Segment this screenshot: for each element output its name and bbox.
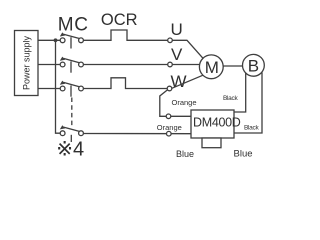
svg-text:MC: MC: [58, 15, 89, 36]
brake coil B: [243, 54, 265, 76]
terminal W: [167, 86, 172, 91]
wire U to motor: [172, 40, 203, 58]
wire motor to brake: [223, 65, 242, 67]
wire phase3 from supply: [38, 88, 60, 90]
terminal U: [168, 38, 173, 43]
power supply box: [15, 31, 39, 96]
wire W tap down to DM400D: [160, 90, 191, 117]
svg-text:B: B: [248, 56, 259, 75]
svg-text:Black: Black: [223, 95, 238, 102]
wire with OCR heater phase3: [83, 78, 167, 89]
contactor MC pole 2: [60, 57, 84, 73]
DM400D brake unit box: [191, 110, 234, 138]
wire V to motor: [172, 64, 199, 66]
wire W to motor: [172, 75, 203, 88]
svg-text:DM400D: DM400D: [193, 116, 241, 130]
svg-text:M: M: [205, 58, 219, 77]
svg-text:Blue: Blue: [234, 149, 253, 160]
connector on orange wire 1: [166, 114, 171, 119]
wire pole4 to DM400D: [83, 133, 191, 135]
svg-text:U: U: [171, 20, 183, 39]
wire phase2 to terminal: [83, 64, 167, 66]
motor M: [199, 55, 223, 79]
terminal V: [168, 62, 173, 67]
svg-text:Orange: Orange: [157, 123, 182, 132]
contactor MC pole 1: [60, 32, 84, 48]
wire phase2 from supply: [38, 64, 60, 66]
wire brake lead left: [234, 73, 246, 112]
vertical tap bus wire: [56, 40, 61, 133]
svg-text:V: V: [171, 45, 183, 64]
svg-text:OCR: OCR: [101, 11, 138, 29]
svg-text:Black: Black: [244, 125, 259, 132]
connector block under DM400D: [202, 138, 221, 148]
svg-text:※4: ※4: [56, 139, 84, 161]
svg-text:Blue: Blue: [176, 149, 194, 159]
wire with OCR heater phase1: [83, 30, 167, 40]
wire phase1 from supply: [38, 39, 60, 41]
svg-text:Power supply: Power supply: [22, 35, 32, 90]
contactor MC pole 3: [60, 81, 84, 97]
contactor pole 4 (brake): [60, 125, 84, 142]
wire brake lead right: [234, 72, 262, 133]
mechanical link dashed: [71, 98, 73, 126]
connector on orange wire 2: [167, 131, 172, 136]
svg-text:Orange: Orange: [172, 98, 197, 107]
junction dot: [54, 38, 58, 42]
